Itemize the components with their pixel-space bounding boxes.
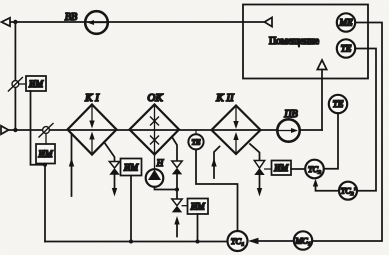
wire recirculation vertical <box>14 22 16 130</box>
fan BB (exhaust fan) <box>85 11 108 34</box>
valve V3 (OK lower) <box>172 199 182 206</box>
node exhaust outlet triangle <box>2 18 11 26</box>
valve V4 (K II) <box>254 161 264 169</box>
pipe OK right drop <box>172 137 177 161</box>
node junction dot bus IM4 <box>196 240 200 244</box>
actuator IM4 <box>182 205 187 207</box>
wire TE duct to TC1 <box>196 149 238 231</box>
svg-text:ИМ: ИМ <box>190 202 205 212</box>
sensor TE duct after OK <box>195 130 197 134</box>
fan PV (supply fan) <box>277 119 299 141</box>
pipe pump outlet <box>155 187 178 190</box>
svg-text:ИМ: ИМ <box>38 149 53 159</box>
wire IM1 control line <box>31 91 46 165</box>
svg-text:Н: Н <box>156 158 164 168</box>
wire supply riser <box>321 70 323 131</box>
node junction dot bus IM3 <box>129 240 133 244</box>
wire control bus bottom <box>45 241 228 243</box>
wire MC1 to TC1 with arrow <box>256 240 294 242</box>
svg-text:Помещение: Помещение <box>269 36 320 47</box>
controller TC2 <box>305 160 324 179</box>
svg-text:К II: К II <box>215 92 235 104</box>
node junction dot pump line <box>175 188 179 192</box>
svg-text:МЕ: МЕ <box>339 18 353 28</box>
svg-text:К I: К I <box>84 92 100 104</box>
svg-text:ТЕ: ТЕ <box>341 44 352 54</box>
svg-text:ТС₂ʹ: ТС₂ʹ <box>341 187 356 196</box>
svg-text:ОК: ОК <box>147 92 163 104</box>
valve V1 (K I) <box>109 162 119 169</box>
svg-text:ТС₁: ТС₁ <box>231 236 244 246</box>
node room intake triangle <box>265 17 273 26</box>
wire IM5 to TC2 <box>291 168 305 170</box>
heater K II <box>212 106 261 155</box>
room box Помещение <box>243 5 368 79</box>
wire IM4 control line <box>197 214 199 242</box>
actuator IM1 <box>19 83 26 85</box>
node supply inlet triangle into room <box>317 60 326 70</box>
spray chamber OK <box>130 105 180 155</box>
sensor TE (room temperature) <box>337 39 355 57</box>
node fresh air intake triangle <box>1 126 9 134</box>
controller TC1 <box>228 231 248 251</box>
wire IM2 control line to bus <box>44 165 46 242</box>
controller TC2 prime <box>339 182 357 200</box>
svg-text:ТС₂: ТС₂ <box>308 165 321 174</box>
damper D2 (fresh air) <box>39 124 53 138</box>
node junction dot main line left <box>13 128 17 132</box>
wire duct from PV fan to riser <box>300 129 322 131</box>
controller MC1 <box>294 231 312 249</box>
valve V2 (OK upper) <box>172 161 182 168</box>
pipe K II supply with up arrow <box>214 147 220 179</box>
wire fresh air main duct line <box>9 129 278 131</box>
node junction dot IM2 output <box>43 163 47 167</box>
wire ME to MC1 (right outer) <box>313 23 383 242</box>
svg-text:ТЕ: ТЕ <box>192 137 201 146</box>
wire TC2prime to TC2 with up arrow <box>316 183 339 191</box>
sensor TE supply duct <box>329 95 347 113</box>
actuator IM2 <box>45 133 47 144</box>
svg-text:ИМ: ИМ <box>123 162 138 172</box>
damper D1 (recirculation) <box>8 78 22 92</box>
wire exhaust duct top line <box>10 21 265 23</box>
node junction dot top-left <box>13 20 17 24</box>
pipe K I return to valve <box>104 142 115 162</box>
svg-text:МС₁: МС₁ <box>294 237 310 246</box>
wire TE supply to TC2 <box>324 113 338 169</box>
pipe K II return drop <box>250 144 260 161</box>
pump N <box>154 155 156 170</box>
heater K I <box>68 105 117 155</box>
sensor ME (room humidity) <box>337 13 355 31</box>
svg-text:ТЕ: ТЕ <box>333 99 344 109</box>
svg-text:ВВ: ВВ <box>65 12 77 23</box>
svg-text:ИМ: ИМ <box>273 163 288 173</box>
svg-text:ИМ: ИМ <box>28 79 43 89</box>
wire room TE to TC2prime (right inner) <box>355 49 376 191</box>
pipe K I supply with up arrow <box>71 135 73 197</box>
wire IM3 control line <box>130 176 132 242</box>
actuator IM3 <box>121 159 142 176</box>
pipe water make-up with up arrow <box>176 221 178 237</box>
actuator IM5 <box>265 168 272 170</box>
